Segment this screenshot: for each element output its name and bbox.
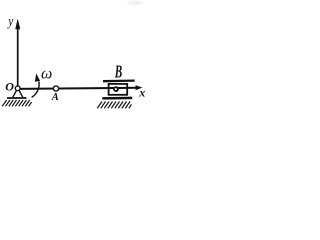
svg-text:x: x — [138, 86, 145, 100]
hatching under slider rail — [97, 102, 131, 109]
svg-text:ω: ω — [41, 66, 52, 83]
y-axis arrowhead — [15, 19, 20, 30]
hatching under O support — [2, 100, 31, 106]
slider bottom guide rail — [102, 97, 132, 100]
node A circle — [53, 86, 58, 91]
ground line at O — [7, 97, 27, 99]
slider B body — [109, 84, 128, 95]
x-axis arrowhead — [136, 85, 143, 90]
y-axis line — [17, 28, 19, 88]
pivot support triangle at O — [13, 90, 23, 97]
wire rod OA-B (x direction) — [18, 88, 137, 89]
svg-text:A: A — [51, 92, 59, 103]
svg-text:B: B — [114, 63, 122, 82]
omega rotation arc — [32, 82, 40, 98]
pin circle at O — [15, 86, 20, 91]
slider B top guide rail — [103, 79, 135, 82]
omega arc arrowhead — [35, 73, 40, 81]
svg-text:O: O — [5, 80, 14, 94]
svg-text:y: y — [6, 14, 13, 29]
slider B pin — [113, 86, 119, 92]
faint scan smudge top-right — [127, 1, 143, 5]
